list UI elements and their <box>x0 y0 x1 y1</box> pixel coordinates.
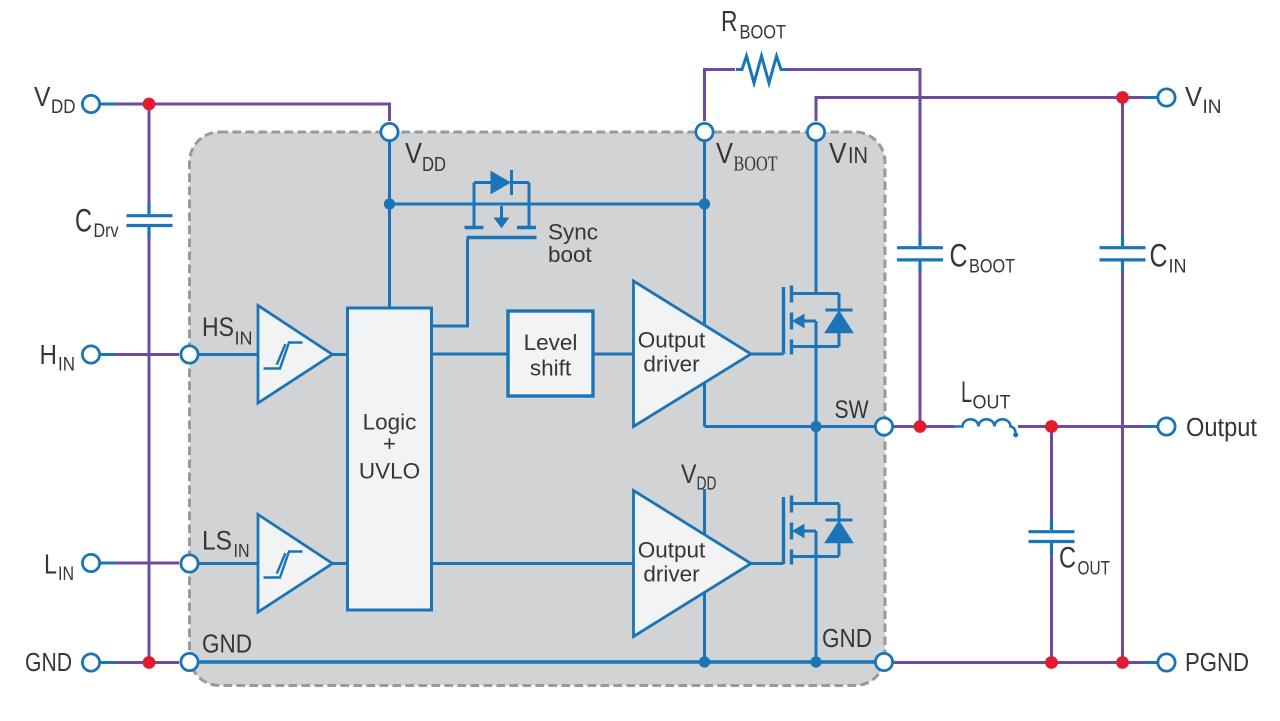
wire GND terminal to GND pin <box>113 661 179 664</box>
wire CBOOT bottom to SW node <box>919 270 922 427</box>
svg-text:BOOT: BOOT <box>969 257 1015 278</box>
svg-text:H: H <box>40 339 58 370</box>
terminal stub VIN right <box>1144 96 1158 99</box>
svg-text:Output: Output <box>638 538 706 563</box>
terminal HIN <box>82 346 99 363</box>
svg-text:C: C <box>1059 542 1076 575</box>
wire CIN branch vertical upper <box>1121 98 1124 237</box>
svg-text:GND: GND <box>25 649 72 677</box>
svg-text:IN: IN <box>234 541 250 561</box>
svg-text:Output: Output <box>638 328 706 353</box>
terminal GND <box>82 654 99 671</box>
wire LS mosfet source down to GND bus <box>815 557 818 663</box>
junction VBOOT internal node <box>699 198 710 209</box>
svg-text:+: + <box>383 431 396 456</box>
terminal VDD <box>82 95 99 112</box>
wire HS mosfet source down to SW rail <box>815 347 818 427</box>
capacitor C_BOOT <box>897 235 943 272</box>
capacitor C_OUT <box>1029 518 1075 555</box>
svg-text:C: C <box>1150 238 1168 274</box>
wire VDD stub down through LS driver to GND bus <box>703 489 706 662</box>
junction GND bus LS source <box>810 656 821 667</box>
junction CIN at PGND <box>1116 656 1129 669</box>
terminal VIN <box>1158 89 1175 106</box>
IC package U1 (dashed outline) <box>190 132 886 686</box>
junction SW internal node <box>810 421 821 432</box>
wire LOUT right lead to Output terminal <box>1018 425 1146 428</box>
svg-text:V: V <box>681 459 697 489</box>
svg-text:IN: IN <box>1169 257 1187 278</box>
pin LSIN <box>181 555 198 572</box>
svg-text:IN: IN <box>848 142 868 168</box>
pin GND right <box>875 653 892 670</box>
wire CIN branch vertical lower to PGND <box>1121 270 1124 663</box>
buffer HS schmitt trigger <box>258 306 333 404</box>
buffer LS schmitt trigger <box>258 515 333 613</box>
inductor phase dot <box>1013 432 1018 437</box>
junction GND/CDrv rail <box>143 656 156 669</box>
svg-text:Drv: Drv <box>94 221 119 242</box>
terminal Output <box>1158 418 1175 435</box>
capacitor C_Drv <box>127 203 173 238</box>
svg-text:Output: Output <box>1186 414 1257 442</box>
svg-text:BOOT: BOOT <box>740 23 787 44</box>
junction VDD/CDrv rail <box>143 98 156 111</box>
inductor L_OUT <box>954 419 1015 432</box>
terminal stub Output <box>1144 425 1158 428</box>
wire COUT branch lower <box>1050 554 1053 663</box>
wire COUT branch upper <box>1050 427 1053 520</box>
svg-text:V: V <box>34 81 51 112</box>
wire VBOOT pin down through HS driver to SW rail <box>703 141 706 427</box>
svg-text:V: V <box>716 138 734 170</box>
terminal PGND <box>1158 654 1175 671</box>
svg-text:L: L <box>44 549 57 580</box>
wire VDD pin down to Logic box <box>388 141 391 309</box>
wire HSIN pin to HS schmitt input <box>198 353 258 356</box>
junction VIN/CIN <box>1116 91 1129 104</box>
wire left vertical rail (VDD to GND) upper segment <box>148 104 151 203</box>
svg-text:OUT: OUT <box>1078 559 1111 580</box>
wire VIN pin down to HS mosfet drain <box>815 141 818 294</box>
svg-text:driver: driver <box>643 352 700 377</box>
wire Logic to Level shift <box>432 353 509 356</box>
svg-text:C: C <box>950 238 968 274</box>
svg-text:DD: DD <box>422 154 446 176</box>
svg-text:IN: IN <box>1203 97 1222 118</box>
svg-text:V: V <box>829 138 847 170</box>
svg-text:V: V <box>405 138 423 170</box>
svg-text:L: L <box>961 376 972 409</box>
svg-text:Sync: Sync <box>548 220 598 245</box>
svg-text:V: V <box>1185 81 1202 112</box>
wire LS schmitt output to Logic box <box>331 562 349 565</box>
svg-text:Level: Level <box>524 330 578 355</box>
junction VDD internal node <box>384 198 395 209</box>
transistor Q2 low-side NMOS <box>751 496 853 565</box>
pin GND left <box>181 653 198 670</box>
svg-text:HS: HS <box>202 312 234 342</box>
pin VDD <box>381 123 398 140</box>
junction GND bus LS driver <box>699 656 710 667</box>
wire VIN pin up and right to VIN terminal <box>816 98 1152 122</box>
svg-text:IN: IN <box>58 564 74 585</box>
wire VDD node to sync boot to VBOOT node <box>390 203 705 206</box>
svg-text:GND: GND <box>822 625 872 653</box>
svg-text:LS: LS <box>202 526 232 556</box>
junction LOUT/COUT at output <box>1045 420 1058 433</box>
wire PGND line <box>893 661 1146 664</box>
resistor R_BOOT <box>736 56 787 83</box>
pin VBOOT <box>696 123 713 140</box>
terminal LIN <box>82 554 99 571</box>
svg-text:driver: driver <box>643 562 700 587</box>
svg-text:shift: shift <box>530 356 572 381</box>
svg-text:UVLO: UVLO <box>359 459 420 484</box>
transistor Q1 high-side NMOS <box>751 286 853 355</box>
terminal stub HIN <box>100 353 116 356</box>
wire GND bus <box>198 660 875 663</box>
wire left vertical rail lower segment <box>148 237 151 663</box>
wire Level shift to HS output driver <box>592 353 634 356</box>
wire SW rail from driver return to SW pin <box>705 425 876 428</box>
pin SW <box>875 418 892 435</box>
svg-text:PGND: PGND <box>1185 649 1249 677</box>
pin VIN <box>807 123 824 140</box>
terminal stub GND <box>100 661 116 664</box>
wire VBOOT pin up to RBOOT left lead <box>705 70 736 122</box>
wire VDD terminal to VDD pin <box>113 104 390 121</box>
terminal stub PGND <box>1144 661 1158 664</box>
pin HSIN <box>181 346 198 363</box>
svg-text:boot: boot <box>548 242 593 267</box>
svg-text:DD: DD <box>51 97 76 118</box>
wire HS schmitt output to Logic box <box>331 353 349 356</box>
svg-text:DD: DD <box>697 474 717 494</box>
svg-text:C: C <box>75 203 92 239</box>
wire HIN terminal to HSIN pin <box>113 353 179 356</box>
wire SW pin to LOUT left lead <box>893 425 954 428</box>
amplifier LS output driver <box>634 491 752 637</box>
junction CBOOT at SW <box>914 420 927 433</box>
svg-text:IN: IN <box>235 329 253 349</box>
wire Logic to sync boot gate <box>432 239 468 326</box>
terminal stub VDD <box>100 103 116 106</box>
svg-text:OUT: OUT <box>973 393 1011 414</box>
svg-text:SW: SW <box>835 396 869 424</box>
wire LIN terminal to LSIN pin <box>113 562 179 565</box>
wire LSIN pin to LS schmitt input <box>198 562 258 565</box>
svg-text:BOOT: BOOT <box>734 152 778 176</box>
capacitor C_IN <box>1100 235 1146 272</box>
svg-text:IN: IN <box>58 355 75 376</box>
wire RBOOT right lead to CBOOT branch top <box>786 70 920 237</box>
logic block U1a (Logic + UVLO) <box>348 308 432 610</box>
junction COUT at PGND <box>1045 656 1058 669</box>
svg-text:GND: GND <box>202 631 252 659</box>
transistor Q3 sync boot PMOS with diode <box>465 170 537 238</box>
wire SW rail to LS mosfet drain <box>815 427 818 504</box>
svg-text:R: R <box>721 6 738 38</box>
amplifier HS output driver <box>634 281 752 427</box>
level shift block <box>508 311 593 396</box>
wire Logic to LS output driver <box>432 562 634 565</box>
terminal stub LIN <box>100 562 116 565</box>
